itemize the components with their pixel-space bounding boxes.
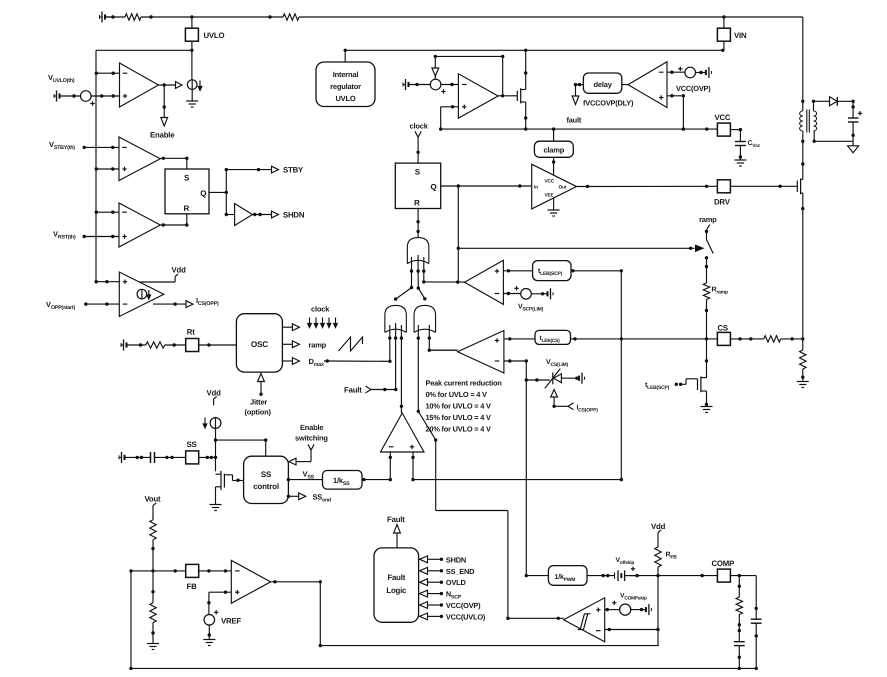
label OVLD fault	[446, 578, 467, 587]
label R_FB	[666, 552, 678, 561]
wire SHDN out	[253, 213, 272, 216]
hysteresis symbol	[578, 614, 591, 630]
buffer arrow to current source	[176, 82, 183, 89]
svg-text:Q: Q	[200, 189, 206, 198]
wire Dmax to OR gate	[324, 359, 392, 363]
svg-text:UVLO: UVLO	[204, 31, 225, 40]
svg-text:Fault: Fault	[387, 573, 405, 582]
pin VCC	[717, 123, 730, 136]
ground SCP mosfet	[701, 407, 713, 413]
block delay	[583, 73, 621, 93]
wire PWM comp minus stub	[389, 452, 392, 480]
svg-text:FB: FB	[187, 582, 198, 591]
svg-text:Jitter: Jitter	[250, 398, 267, 407]
current source I_CS(OPP) inside	[137, 289, 151, 299]
label SS_END fault	[446, 567, 475, 576]
wire OVP minus input	[667, 67, 685, 74]
label Enable	[150, 131, 175, 140]
label SS_end	[313, 492, 331, 503]
wire OPP output	[153, 302, 186, 305]
capacitor SS	[151, 452, 186, 463]
wire R_FB to COMP node	[657, 567, 659, 576]
ground VREF	[203, 640, 215, 646]
op-amp VCC OVP comparator	[628, 62, 667, 108]
svg-text:Peak current reduction: Peak current reduction	[426, 379, 503, 388]
svg-text:R: R	[414, 199, 420, 208]
battery SS pin source	[119, 452, 151, 463]
wire driver output to DRV	[577, 185, 718, 188]
label fault	[567, 116, 582, 125]
wire SCP mosfet drain	[706, 377, 708, 378]
wire clamp node to kPWM	[526, 575, 548, 577]
svg-text:20% for UVLO = 4 V: 20% for UVLO = 4 V	[426, 425, 491, 434]
transistor V_CS(LIM) clamp	[545, 369, 562, 389]
svg-text:VREF: VREF	[221, 617, 241, 626]
block OSC	[236, 314, 282, 372]
label Fault input	[344, 386, 362, 395]
op-amp skip comparator	[564, 598, 605, 642]
block 1/k_SS	[323, 471, 363, 490]
svg-text:delay: delay	[594, 80, 613, 89]
arrow ramp output	[282, 341, 299, 348]
or-gate right sub OR	[414, 305, 436, 332]
wire left branch to bottom rail	[129, 571, 132, 670]
label Vdd COMP	[651, 522, 666, 539]
wire driver VEE to ground	[553, 198, 555, 211]
wire PWM comp output up	[400, 338, 403, 413]
ground aux chassis	[848, 146, 859, 153]
label R_ramp	[712, 287, 728, 296]
svg-text:Internal: Internal	[333, 70, 359, 79]
label Vdd OPP	[172, 266, 187, 275]
wire PWM comp plus stub	[411, 452, 414, 481]
ground SS mosfet	[210, 505, 222, 511]
svg-text:Vout: Vout	[145, 495, 162, 504]
wire VCC line to clamp	[553, 129, 555, 141]
wire CS to sense node	[730, 337, 763, 340]
battery V_UVLO(th) source	[54, 91, 81, 102]
wire comp branch2 bottom	[755, 623, 758, 668]
wire kSS to PWM comp minus	[362, 478, 392, 481]
wire SCP minus input	[503, 286, 520, 295]
wire CS to PWM comp plus	[413, 271, 623, 482]
label V_OPP(start)	[46, 300, 75, 311]
wire current source to ground	[191, 89, 193, 101]
transformer primary	[800, 111, 803, 131]
wire center comp plus input	[439, 105, 458, 131]
wire SCP output to OR	[424, 280, 465, 283]
svg-text:15% for UVLO = 4 V: 15% for UVLO = 4 V	[426, 413, 491, 422]
battery Vin source top-left	[100, 12, 114, 23]
op-amp SCP comparator	[465, 260, 504, 304]
arrow Fault up	[394, 525, 401, 548]
pin SS	[186, 440, 199, 464]
capacitor aux	[848, 111, 862, 122]
label peak current reduction	[426, 379, 503, 434]
label Enable switching	[295, 423, 328, 443]
wire CS comp plus input	[504, 337, 535, 340]
svg-text:switching: switching	[295, 434, 328, 443]
wire power rail top	[801, 17, 804, 111]
svg-text:Vdd: Vdd	[651, 522, 666, 531]
label C_Vcc	[748, 140, 761, 149]
resistor sense	[800, 350, 806, 369]
arrow ramp switch control	[696, 245, 704, 251]
label Vdd SS	[207, 389, 222, 406]
svg-text:S: S	[184, 174, 190, 183]
wire SS pin to node	[199, 456, 216, 459]
wire below CS line	[705, 339, 708, 378]
wire UVLO comp plus input	[91, 94, 119, 97]
pin DRV	[714, 180, 731, 207]
svg-text:fVCCOVP(DLY): fVCCOVP(DLY)	[583, 99, 634, 108]
wire rail mid	[801, 131, 804, 180]
buffer SHDN	[226, 204, 252, 226]
arrow VCC(UVLO) fault input	[420, 613, 444, 620]
wire V_offskip to COMP	[629, 574, 718, 577]
wire t_LEB(CS) output to CS pin	[571, 337, 718, 340]
svg-text:UVLO: UVLO	[335, 94, 355, 103]
ground C_Vcc	[734, 160, 746, 166]
wire RST comp plus input	[83, 235, 120, 238]
battery V_CS(LIM)	[561, 373, 584, 384]
wire Rt to OSC	[199, 343, 237, 346]
label STBY	[283, 166, 304, 175]
block t_LEB(SCP)	[533, 261, 571, 281]
wire COMP node down to skip minus	[656, 576, 659, 646]
label clock latch	[410, 122, 429, 131]
capacitor COMP series	[734, 642, 745, 646]
svg-text:DRV: DRV	[714, 198, 731, 207]
wire error amp output	[271, 580, 322, 583]
capacitor COMP parallel	[751, 619, 762, 623]
wire UVLO to bus	[96, 41, 194, 80]
block Fault Logic	[374, 548, 419, 622]
wire left OR inputs	[388, 323, 403, 340]
label N_SCP fault	[446, 590, 462, 601]
label V_SCP(LIM)	[518, 304, 544, 313]
resistor R_ramp	[703, 283, 709, 300]
wire latch2 Q output	[441, 184, 532, 187]
wire VCC line	[441, 127, 718, 130]
wire VCC to C_Vcc	[730, 128, 742, 142]
wire Vdd to R_FB	[657, 539, 659, 548]
wire diode to aux cap	[837, 100, 855, 118]
latch SR PWM	[395, 163, 440, 208]
label fVCCOVP(DLY)	[583, 99, 634, 108]
arrow SHDN	[272, 211, 279, 218]
op-amp center regulator comparator	[458, 74, 498, 118]
sawtooth symbol	[339, 337, 363, 351]
wire right OR inputs	[417, 325, 431, 340]
svg-text:0% for UVLO = 4 V: 0% for UVLO = 4 V	[426, 390, 488, 399]
battery V_SCP(LIM)	[531, 288, 553, 299]
svg-text:ramp: ramp	[309, 340, 327, 349]
wire SS to SS control top	[216, 438, 268, 456]
pin FB	[186, 564, 199, 591]
wire C_Vcc to ground	[739, 146, 742, 161]
wire right OR input2 to CS comp	[428, 338, 458, 352]
transistor SCP blank mosfet	[698, 376, 709, 406]
source center ref circle	[430, 79, 445, 94]
wire STBY comp minus input	[83, 146, 120, 149]
resistor Rtop1	[125, 14, 141, 20]
wire top rail right	[299, 15, 803, 18]
resistor Rtop2	[283, 14, 299, 20]
wire VREF to plus input	[207, 591, 231, 615]
wire comp branch1 bottom	[738, 646, 741, 669]
wire SS node vertical	[214, 428, 217, 471]
wire comp branch1 mid	[738, 615, 741, 642]
svg-text:Vdd: Vdd	[207, 389, 222, 398]
label V_UVLO(th)	[48, 73, 75, 84]
svg-text:OVLD: OVLD	[446, 578, 467, 587]
wire COMP external	[730, 574, 756, 577]
wire feedback loop top	[434, 55, 505, 96]
arrow I_CS(OPP) adjust	[551, 390, 558, 408]
arrow loop into source	[432, 68, 439, 79]
svg-text:(option): (option)	[245, 408, 272, 417]
wire CS comp minus input	[504, 359, 528, 362]
wire SS mosfet source to ground	[215, 487, 217, 505]
op-amp UVLO comparator	[120, 63, 159, 107]
block SS control	[244, 456, 289, 503]
wire COMP comp network branch1	[738, 576, 741, 597]
arrow Enable	[161, 118, 168, 127]
wire Q to ramp switch control	[457, 186, 695, 282]
or-gate main fault OR	[407, 238, 429, 264]
label VCC	[715, 113, 731, 122]
label V_SS	[303, 470, 315, 481]
wire DRV to power mosfet gate	[730, 185, 797, 188]
wire regulator to VCC rail	[344, 49, 347, 62]
wire aux cap bottom	[813, 122, 855, 146]
wire clamp node	[526, 378, 550, 381]
ground divider	[147, 644, 159, 650]
wire COMP feedback bottom	[320, 645, 659, 647]
wire divider to ground	[151, 623, 154, 644]
svg-text:Vdd: Vdd	[172, 266, 187, 275]
svg-text:ramp: ramp	[699, 215, 717, 224]
arrow I_CS(OPP)	[186, 301, 193, 308]
wire aux top to diode	[812, 100, 830, 111]
svg-text:S: S	[415, 168, 421, 177]
wire Vout down	[152, 511, 154, 520]
svg-text:clamp: clamp	[543, 146, 564, 155]
svg-text:VIN: VIN	[734, 31, 747, 40]
transistor SS discharge	[216, 471, 240, 490]
label I_CS(OPP)	[196, 296, 219, 307]
svg-text:OSC: OSC	[251, 340, 268, 349]
arrow clock output	[282, 324, 299, 331]
svg-text:VCC: VCC	[545, 179, 555, 185]
label Fault output	[387, 515, 405, 524]
resistor divider lower	[150, 603, 156, 623]
wire center comp output	[498, 94, 517, 97]
resistor Rt external	[146, 342, 165, 348]
svg-text:VCC(OVP): VCC(OVP)	[446, 601, 481, 610]
label clock OSC	[311, 305, 330, 314]
transformer secondary aux	[814, 111, 817, 131]
battery Rt source	[121, 340, 146, 351]
wire bus to OPP plus input	[95, 280, 120, 283]
wire SS control gate drive	[238, 480, 244, 482]
label SHDN	[283, 211, 305, 220]
pin COMP	[717, 569, 730, 582]
transistor center pass mosfet	[517, 50, 527, 129]
resistor COMP ext	[736, 597, 742, 615]
wire enable branch	[163, 85, 166, 118]
svg-text:Logic: Logic	[386, 586, 407, 595]
svg-text:Fault: Fault	[387, 515, 405, 524]
wire bottom rail	[131, 667, 758, 670]
label V_CS(LIM)	[546, 359, 569, 368]
op-amp PWM comparator	[381, 413, 425, 452]
wire clamp to driver	[552, 157, 555, 175]
pin CS	[717, 324, 730, 346]
svg-text:In: In	[534, 185, 538, 191]
left bus vertical	[95, 50, 97, 281]
wire t_LEB(SCP) output	[571, 269, 623, 272]
wire RST comp minus input	[95, 211, 119, 214]
wire STBY comp output to latch S	[160, 157, 188, 169]
wire latch2 R input	[416, 209, 419, 238]
svg-text:Enable: Enable	[150, 131, 175, 140]
label VREF	[221, 617, 241, 626]
svg-text:SS_END: SS_END	[446, 567, 475, 576]
block t_LEB(CS)	[535, 330, 571, 344]
wire error amp output down	[319, 582, 322, 648]
wire rail sense segment	[801, 339, 804, 382]
pin UVLO	[185, 17, 224, 41]
block 1/k PWM	[548, 566, 587, 586]
op-amp STBY comparator	[119, 137, 160, 181]
label VCC(OVP) fault	[446, 601, 481, 610]
arrow SS_END fault input	[420, 567, 444, 574]
pin VIN	[717, 17, 747, 50]
wire FB line	[129, 569, 185, 572]
arrow fVCCOVP delay	[572, 96, 579, 105]
wire VREF to ground	[208, 625, 211, 639]
ground below current source	[186, 101, 198, 107]
wire V_SS output	[287, 478, 323, 481]
wire internal VCC rail	[345, 49, 724, 52]
wire OPP Vdd tap	[140, 274, 179, 282]
wire latch Q output	[209, 168, 228, 216]
resistor divider upper	[150, 520, 156, 540]
svg-text:CS: CS	[718, 324, 728, 333]
wire Enable switching input	[296, 444, 314, 461]
wire UVLO comp output	[159, 83, 176, 86]
wire t_LEB gate	[675, 379, 698, 386]
wire kPWM to V_offskip	[587, 574, 615, 577]
wire top rail mid	[141, 15, 283, 18]
op-amp RST comparator	[119, 203, 160, 247]
arrow SHDN fault input	[420, 556, 444, 563]
wire top rail left	[106, 15, 125, 18]
label Dmax	[309, 357, 324, 368]
latch SR standby	[165, 169, 209, 214]
svg-text:clock: clock	[410, 122, 429, 131]
wire RST comp output to latch R	[160, 214, 188, 227]
svg-text:SS: SS	[187, 440, 197, 449]
svg-text:COMP: COMP	[712, 559, 735, 568]
wire delay fault output	[574, 83, 584, 96]
svg-text:Enable: Enable	[300, 423, 323, 432]
wire to power rail CS node	[781, 337, 805, 340]
wire OR1 input left	[394, 257, 413, 301]
clock pulse arrows	[308, 318, 338, 328]
wire OR1 input right	[422, 257, 425, 284]
buffer driver	[532, 164, 577, 209]
wire to center comp minus	[441, 83, 459, 86]
or-gate left sub OR	[385, 305, 407, 332]
wire STBY comp plus input	[95, 167, 119, 170]
arrow Dmax output	[282, 358, 299, 365]
svg-text:SS: SS	[261, 470, 272, 479]
resistor R_FB	[655, 547, 661, 567]
label ramp switch	[699, 215, 717, 224]
wire to Rt pin	[165, 343, 186, 346]
label VCC(OVP)	[676, 84, 711, 93]
svg-text:VCC: VCC	[715, 113, 731, 122]
op-amp error amplifier	[231, 560, 270, 603]
wire CS comp output to OR	[429, 349, 457, 351]
battery V_offskip	[615, 567, 641, 581]
label I_CS(OPP) clamp	[577, 405, 599, 414]
wire OR1 input mid	[416, 255, 426, 300]
wire skip minus input	[605, 628, 658, 631]
wire CS clamp vertical to kPWM	[525, 361, 528, 577]
label COMP	[712, 559, 735, 568]
wire R_ramp to CS line	[705, 300, 708, 339]
transformer core	[807, 110, 810, 133]
battery V_COMPskip	[630, 604, 651, 615]
svg-text:control: control	[253, 482, 279, 491]
svg-text:VEE: VEE	[545, 193, 555, 199]
source V_COMPskip	[620, 604, 631, 615]
diode aux rectifier	[830, 97, 838, 106]
wire delay to OVP apex	[622, 84, 628, 86]
wire to I_CS(OPP)	[554, 403, 573, 410]
svg-text:clock: clock	[311, 305, 330, 314]
svg-text:10% for UVLO = 4 V: 10% for UVLO = 4 V	[426, 402, 491, 411]
wire FB to error amp minus	[199, 569, 232, 572]
wire COMP comp network branch2	[755, 576, 758, 620]
block internal regulator UVLO	[316, 62, 375, 107]
svg-text:fault: fault	[567, 116, 582, 125]
battery VCC(OVP)	[695, 67, 711, 78]
arrow into SS control	[289, 458, 296, 465]
transistor power mosfet	[797, 178, 804, 339]
wire Fault to OR	[366, 338, 398, 393]
arrow OVLD fault input	[420, 579, 444, 586]
resistor CS filter	[764, 336, 781, 342]
source V_UVLO(th) circle	[81, 91, 95, 106]
wire OPP minus input	[84, 302, 119, 305]
switch ramp	[705, 225, 713, 283]
op-amp CS limit comparator	[458, 331, 504, 374]
label V_COMPskip	[620, 593, 647, 602]
label ramp OSC	[309, 340, 327, 349]
svg-text:Out: Out	[559, 185, 567, 191]
arrow SS_end	[287, 493, 306, 500]
label V_STBY(th)	[49, 140, 75, 151]
current source I enable	[187, 80, 201, 91]
block clamp	[534, 141, 573, 157]
label Jitter option	[245, 398, 272, 417]
wire clock to latch S	[415, 131, 421, 163]
